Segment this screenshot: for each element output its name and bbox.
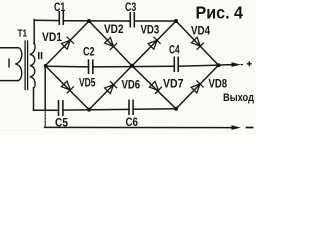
svg-text:VD4: VD4 [191,24,210,38]
svg-text:VD8: VD8 [209,77,228,91]
svg-text:VD7: VD7 [163,77,184,91]
svg-text:VD2: VD2 [104,22,124,36]
svg-text:C1: C1 [54,0,65,14]
svg-text:C3: C3 [125,0,136,14]
svg-text:Выход: Выход [223,92,254,104]
svg-text:C4: C4 [169,43,180,57]
svg-text:VD3: VD3 [141,23,160,37]
svg-text:C2: C2 [83,45,95,59]
svg-text:C5: C5 [55,116,68,130]
svg-text:VD5: VD5 [79,76,96,90]
svg-text:VD1: VD1 [42,30,62,44]
svg-text:Рис. 4: Рис. 4 [196,2,244,22]
svg-text:T1: T1 [18,29,28,40]
svg-text:VD6: VD6 [122,78,141,92]
svg-text:C6: C6 [126,115,139,129]
